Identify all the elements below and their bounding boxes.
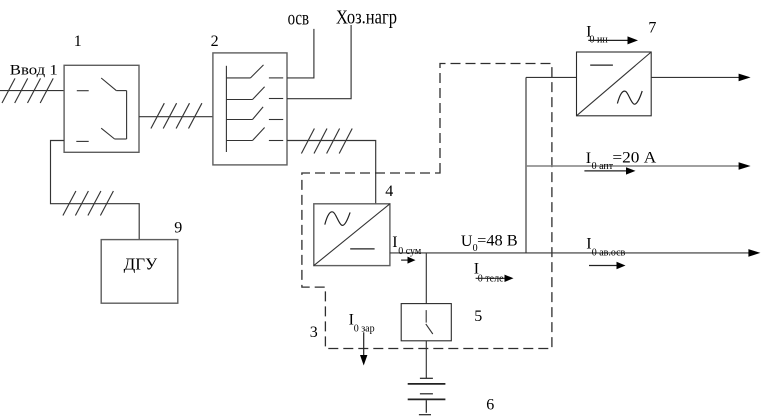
current label I0 апт =20 А bbox=[586, 149, 657, 172]
hatch marks on input feeder bbox=[2, 78, 53, 103]
wire: box 2 to Хоз.нагр load bbox=[287, 25, 351, 99]
svg-text:0 сум: 0 сум bbox=[398, 246, 422, 257]
arrow I0 ин bbox=[588, 36, 638, 44]
svg-text:9: 9 bbox=[174, 220, 182, 237]
box 7 DC dash symbol bbox=[590, 64, 613, 66]
svg-text:I: I bbox=[392, 234, 397, 251]
box 9: diesel generator ДГУ bbox=[101, 240, 178, 304]
wire: DC feed I0 апт with arrow bbox=[526, 165, 739, 167]
node label: U0=48 В bbox=[461, 233, 518, 254]
current label I0 сум bbox=[392, 234, 422, 257]
current label I0 ин bbox=[586, 24, 608, 46]
arrowhead inverter output bbox=[739, 74, 751, 82]
arrow I0 теле bbox=[476, 275, 514, 282]
breaker 2.3 bbox=[226, 107, 283, 120]
svg-text:осв: осв bbox=[288, 8, 310, 30]
svg-text:4: 4 bbox=[385, 183, 393, 200]
box 4 AC sine symbol bbox=[325, 212, 350, 226]
box 4: rectifier bbox=[314, 204, 390, 266]
svg-text:I: I bbox=[586, 150, 591, 167]
wire: input feeder Ввод 1 to box 1 bbox=[0, 90, 64, 92]
svg-text:ДГУ: ДГУ bbox=[124, 254, 158, 273]
wire: inverter output with arrow bbox=[651, 76, 739, 78]
wire: box 1 output to box 2 bbox=[139, 116, 213, 118]
hatch marks on wire box2-box4 bbox=[301, 129, 352, 154]
current label I0 ав.осв bbox=[586, 235, 625, 258]
current label I0 теле bbox=[474, 260, 504, 284]
arrowhead I0 апт line bbox=[739, 162, 751, 170]
svg-text:2: 2 bbox=[211, 33, 219, 50]
hatch marks on wire box1-box2 bbox=[151, 103, 202, 128]
box 1: transfer switch (АВР) bbox=[64, 65, 139, 152]
wire: box 2 to осв load bbox=[287, 29, 314, 78]
box 4 DC dash symbol bbox=[350, 248, 374, 250]
svg-text:=48 В: =48 В bbox=[477, 233, 518, 250]
arrow I0 апт bbox=[584, 167, 635, 174]
box 5: battery switch bbox=[401, 304, 451, 341]
arrow I0 ав.осв bbox=[589, 262, 626, 269]
box 7 AC sine symbol bbox=[617, 91, 642, 104]
box 4 diagonal bbox=[314, 204, 390, 266]
svg-text:0 апт: 0 апт bbox=[592, 161, 614, 172]
breaker 2.2 bbox=[226, 87, 283, 100]
wire: DC bus node line U0 with output arrow I0 ав.осв bbox=[390, 252, 749, 254]
wire: box 5 to battery bbox=[425, 341, 427, 379]
svg-text:=20 А: =20 А bbox=[612, 149, 656, 166]
arrowhead output right bbox=[748, 249, 760, 257]
box 2 internal bus bbox=[225, 66, 227, 152]
svg-text:7: 7 bbox=[648, 20, 656, 37]
wire: box 2 to rectifier box 4 bbox=[287, 141, 376, 204]
wire: DC feed to inverter box 7 bbox=[526, 76, 577, 78]
wire: DC riser bus to inverter and battery loads bbox=[525, 77, 527, 253]
box 7: inverter bbox=[577, 52, 652, 116]
breaker 2.4 bbox=[226, 128, 283, 141]
arrow I0 зар (down) bbox=[360, 332, 367, 365]
breaker 2.1 bbox=[226, 65, 283, 78]
battery 6 bbox=[408, 378, 446, 414]
box 1 upper contact dash bbox=[77, 90, 89, 92]
box 5 switch symbol bbox=[426, 310, 433, 334]
hatch marks on wire box1-box9 bbox=[63, 191, 114, 216]
wire: box 1 to diesel generator box 9 bbox=[51, 141, 140, 240]
wire: node to battery switch box 5 bbox=[425, 253, 427, 304]
arrow I0 сум bbox=[401, 257, 415, 264]
svg-text:1: 1 bbox=[74, 33, 82, 50]
svg-text:5: 5 bbox=[474, 308, 482, 325]
svg-text:Хоз.нагр: Хоз.нагр bbox=[336, 7, 397, 29]
svg-text:0 ав.осв: 0 ав.осв bbox=[592, 247, 626, 258]
svg-text:0 теле: 0 теле bbox=[478, 274, 504, 285]
svg-text:6: 6 bbox=[486, 396, 494, 413]
svg-text:Ввод 1: Ввод 1 bbox=[10, 63, 58, 79]
box 7 diagonal bbox=[577, 52, 652, 116]
svg-text:3: 3 bbox=[310, 324, 318, 341]
box 1 lower contact dash bbox=[76, 140, 88, 142]
svg-text:U: U bbox=[461, 233, 473, 250]
box 1 lower switch blade bbox=[101, 128, 126, 139]
dashed boundary of unit 3 bbox=[302, 64, 552, 349]
current label I0 зар bbox=[349, 311, 375, 334]
box 2: AC distribution board bbox=[213, 53, 287, 165]
box 1 upper switch blade bbox=[101, 78, 126, 91]
box 1 common bar bbox=[126, 91, 128, 139]
